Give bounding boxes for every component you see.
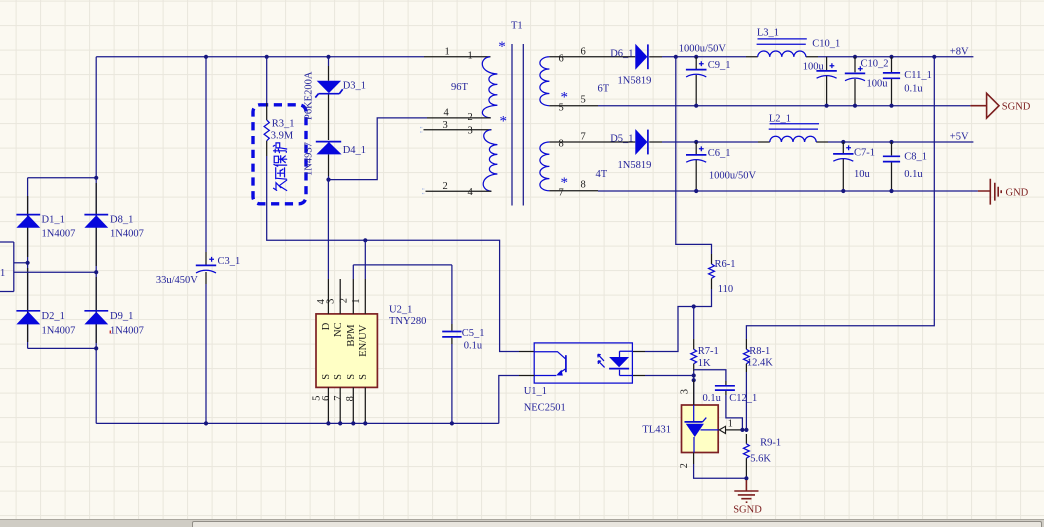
IC TL431 body	[682, 405, 719, 453]
svg-text:6: 6	[559, 54, 564, 65]
wire U2 pin1 up to EN node	[364, 240, 366, 279]
wire EN node to opto collector	[365, 240, 519, 351]
svg-text:96T: 96T	[451, 82, 469, 93]
junction C8 top	[889, 140, 893, 144]
capacitor C7-1	[842, 142, 844, 191]
capacitor C8_1	[891, 142, 893, 191]
resistor R9-1	[745, 434, 747, 444]
svg-text:C12_1: C12_1	[729, 393, 757, 404]
svg-text:BPM: BPM	[346, 324, 357, 347]
wire GND rail	[598, 190, 978, 192]
svg-text:6: 6	[581, 47, 586, 58]
wire R6 bottom to node	[694, 289, 712, 307]
capacitor C10_2	[854, 57, 856, 106]
svg-text:S: S	[346, 374, 357, 380]
junction ref node left	[740, 428, 744, 432]
svg-text:110: 110	[718, 284, 733, 295]
stray red tick	[109, 331, 111, 334]
T1 pin 5 lead	[549, 105, 598, 107]
opto LED	[609, 357, 629, 367]
TL431 internal symbol	[693, 405, 695, 422]
svg-text:33u/450V: 33u/450V	[156, 275, 198, 286]
svg-text:L3_1: L3_1	[757, 28, 779, 39]
wire TL431 anode to SGND	[694, 464, 747, 478]
svg-text:8: 8	[345, 396, 356, 401]
svg-text:1: 1	[0, 268, 5, 279]
wire opto emitter to primary ground	[519, 375, 534, 377]
svg-text:D3_1: D3_1	[343, 81, 366, 92]
ground symbol SGND bottom	[734, 480, 758, 502]
U2 pin 1 (EN/UV)	[364, 279, 366, 314]
svg-text:R8-1: R8-1	[749, 346, 770, 357]
resistor R6-1	[711, 254, 713, 264]
junction C3 bottom	[204, 421, 208, 425]
svg-text:1N4007: 1N4007	[110, 229, 144, 240]
status bar	[0, 519, 1044, 527]
svg-text:1N5819: 1N5819	[618, 75, 652, 86]
capacitor C6_1	[695, 142, 697, 191]
svg-text:100u: 100u	[803, 62, 825, 73]
svg-text:1: 1	[468, 51, 473, 62]
svg-text:C10_2: C10_2	[861, 58, 889, 69]
svg-text:NEC2501: NEC2501	[524, 403, 566, 414]
svg-text:3: 3	[326, 299, 337, 304]
junction SGND node	[744, 476, 748, 480]
svg-text:2: 2	[338, 298, 349, 303]
junction C7 top	[841, 140, 845, 144]
svg-text:1N4007: 1N4007	[110, 326, 144, 337]
svg-text:*: *	[498, 39, 506, 55]
T1 pin 6 lead	[549, 56, 635, 58]
junction EN/UV	[363, 238, 367, 242]
svg-text:6T: 6T	[598, 84, 610, 95]
wire bottom rail	[96, 422, 499, 424]
svg-text:P6KE200A: P6KE200A	[304, 71, 315, 120]
capacitor C3_1	[205, 57, 207, 252]
pin leads diode column right	[95, 183, 97, 343]
svg-text:C6_1: C6_1	[708, 148, 731, 159]
svg-text:R3_1: R3_1	[272, 119, 295, 130]
U2 pin 2 (BPM)	[352, 279, 354, 314]
junction drain node	[326, 178, 330, 182]
wire +5V rail	[662, 141, 973, 143]
no-connect marker pin 4	[422, 189, 425, 194]
svg-text:L2_1: L2_1	[769, 113, 791, 124]
power ground GND	[978, 179, 1001, 205]
svg-text:10u: 10u	[854, 169, 871, 180]
U2 source pins 5-8	[328, 387, 365, 423]
svg-text:1K: 1K	[698, 358, 711, 369]
svg-text:1N5819: 1N5819	[618, 160, 652, 171]
wire top rail	[96, 56, 424, 58]
wire input pin B	[14, 271, 96, 273]
junction at D1-D2 node	[26, 261, 30, 265]
svg-text:S: S	[358, 374, 369, 380]
T1 aux winding	[483, 130, 497, 191]
svg-text:1N4007: 1N4007	[42, 229, 76, 240]
svg-text:*: *	[500, 114, 508, 130]
svg-text:D4_1: D4_1	[343, 145, 366, 156]
junctions U2 source pins on ground rail	[326, 421, 330, 425]
wire node to opto anode	[645, 307, 694, 352]
no-connect marker pin 3	[420, 128, 423, 133]
junction C3 top	[204, 55, 208, 59]
label 欠压保护 (vertical)	[273, 143, 286, 191]
capacitor C11_1	[891, 57, 893, 106]
svg-text:SGND: SGND	[1002, 102, 1031, 113]
junction R6/R7/opto node	[692, 304, 696, 308]
svg-text:C7-1: C7-1	[854, 147, 875, 158]
svg-text:SGND: SGND	[733, 505, 762, 516]
svg-text:8: 8	[559, 139, 564, 150]
svg-text:C11_1: C11_1	[904, 70, 932, 81]
svg-text:3: 3	[679, 389, 690, 394]
junction feedback tap	[674, 55, 678, 59]
svg-text:C10_1: C10_1	[812, 38, 840, 49]
capacitor C5_1	[451, 265, 453, 324]
wire R8 tap down	[746, 57, 934, 339]
svg-text:C8_1: C8_1	[904, 151, 927, 162]
svg-text:D1_1: D1_1	[42, 215, 65, 226]
transformer T1 core	[512, 44, 523, 206]
wire R3 bottom to EN node	[267, 156, 366, 240]
svg-text:6: 6	[321, 396, 332, 401]
svg-text:2: 2	[679, 463, 690, 468]
wire opto cathode to node	[632, 375, 645, 377]
optocoupler U1_1 NEC2501 body	[534, 343, 632, 383]
svg-text:U2_1: U2_1	[389, 305, 412, 316]
wire top-left vertical	[95, 57, 97, 178]
wire input pin A	[14, 262, 28, 264]
svg-text:5.6K: 5.6K	[750, 453, 771, 464]
U2 pin 3 (NC)	[339, 279, 341, 314]
svg-text:D9_1: D9_1	[110, 311, 133, 322]
svg-text:2: 2	[468, 112, 473, 123]
junction C6 bottom	[694, 189, 698, 193]
svg-text:7: 7	[333, 396, 344, 401]
svg-text:0.1u: 0.1u	[904, 84, 923, 95]
svg-text:D8_1: D8_1	[110, 215, 133, 226]
T1 secondary winding 6T	[540, 57, 550, 106]
junction R8 tap	[932, 55, 936, 59]
opto phototransistor	[534, 352, 566, 360]
junction D3/D4 top	[326, 55, 330, 59]
svg-text:D5_1: D5_1	[610, 134, 633, 145]
svg-text:D6_1: D6_1	[610, 48, 633, 59]
wire drain node down to U2 pin D	[327, 180, 329, 279]
junction C11 top	[889, 55, 893, 59]
junction C11 bottom	[889, 104, 893, 108]
resistor R8-1	[745, 339, 747, 349]
junction at D8-D9 node	[94, 270, 98, 274]
undervoltage protection dashed box 欠压保护	[253, 105, 306, 204]
pin leads diode column left	[27, 196, 29, 342]
svg-text:U1_1: U1_1	[524, 386, 547, 397]
svg-text:S: S	[333, 374, 344, 380]
svg-text:R9-1: R9-1	[760, 438, 781, 449]
svg-text:R7-1: R7-1	[698, 346, 719, 357]
svg-text:3: 3	[443, 120, 448, 131]
T1 aux pin 4 lead (unconnected)	[426, 190, 492, 192]
wire left diode column	[27, 178, 29, 349]
T1 pin 7 lead	[549, 190, 598, 192]
inductor L3_1	[746, 56, 818, 58]
svg-text:100u: 100u	[867, 78, 889, 89]
diode D6_1 1N5819	[635, 44, 647, 70]
T1 aux winding pin 3 lead (unconnected)	[424, 129, 492, 131]
junction C10_1 bottom	[825, 104, 829, 108]
diode D8_1	[84, 214, 108, 216]
svg-text:TNY280: TNY280	[389, 316, 426, 327]
svg-text:0.1u: 0.1u	[464, 341, 483, 352]
svg-text:C9_1: C9_1	[708, 60, 731, 71]
capacitor C12_1	[694, 370, 726, 381]
resistor R3_1	[266, 57, 268, 103]
T1 primary winding 96T	[424, 56, 491, 58]
wire +8V rail	[662, 56, 973, 58]
inductor L2_1	[758, 141, 828, 143]
svg-text:1N4007: 1N4007	[42, 326, 76, 337]
svg-text:C5_1: C5_1	[462, 328, 485, 339]
junction C9 bottom	[694, 104, 698, 108]
diode D1_1	[16, 214, 40, 216]
resistor R7-1	[693, 307, 695, 340]
diode D4_1 1N4937	[316, 141, 341, 143]
wire right diode column	[95, 178, 97, 424]
wire bridge bottom	[28, 347, 97, 349]
svg-text:TL431: TL431	[642, 424, 671, 435]
U2 pin 4 (D)	[327, 279, 329, 314]
junction C8 bottom	[889, 189, 893, 193]
connector J1 (partial, left edge)	[0, 242, 14, 292]
wire drain node to primary pin 2	[329, 118, 428, 180]
junction bridge top	[94, 176, 98, 180]
TL431 pin 2	[693, 453, 695, 465]
svg-text:1: 1	[728, 418, 733, 429]
svg-text:3: 3	[468, 126, 473, 137]
svg-text:*: *	[561, 175, 569, 191]
svg-text:*: *	[561, 90, 569, 106]
svg-text:0.1u: 0.1u	[703, 393, 722, 404]
svg-text:EN/UV: EN/UV	[358, 324, 369, 356]
T1 secondary winding 4T	[540, 142, 550, 191]
svg-text:C3_1: C3_1	[218, 256, 241, 267]
wire SGND rail	[598, 105, 970, 107]
junction R3 top	[265, 55, 269, 59]
svg-text:D2_1: D2_1	[42, 311, 65, 322]
junction C7 bottom	[841, 189, 845, 193]
capacitor C9_1	[695, 57, 697, 106]
svg-text:8: 8	[581, 180, 586, 191]
svg-text:NC: NC	[333, 322, 344, 337]
opto light arrows	[598, 354, 604, 361]
svg-text:5: 5	[581, 95, 586, 106]
TL431 ref arrow pin 1	[719, 426, 725, 433]
svg-text:1N4937: 1N4937	[304, 142, 315, 176]
svg-text:1: 1	[445, 47, 450, 58]
junction opto cathode	[692, 373, 696, 377]
wire +8V tap down to R6	[676, 57, 712, 254]
IC U2_1 TNY280 body	[316, 314, 377, 388]
junction ref node right	[744, 428, 748, 432]
diode D5_1 1N5819	[635, 129, 647, 155]
svg-text:3.9M: 3.9M	[271, 131, 294, 142]
svg-text:D: D	[321, 322, 332, 330]
junction C10_2 bottom	[853, 104, 857, 108]
svg-text:GND: GND	[1006, 188, 1029, 199]
svg-text:0.1u: 0.1u	[904, 169, 923, 180]
junction bridge bottom	[94, 346, 98, 350]
svg-text:4T: 4T	[596, 169, 608, 180]
svg-text:+8V: +8V	[950, 46, 969, 57]
T1 pin 8 lead	[549, 141, 635, 143]
svg-text:R6-1: R6-1	[715, 259, 736, 270]
diode D9_1	[84, 310, 108, 312]
junction TL431 ref node	[692, 378, 696, 382]
svg-text:4: 4	[444, 108, 450, 119]
diode D2_1	[16, 310, 40, 312]
power port SGND right	[970, 93, 999, 118]
capacitor C10_1	[826, 57, 828, 106]
svg-text:1000u/50V: 1000u/50V	[679, 44, 727, 55]
svg-text:1: 1	[351, 298, 362, 303]
svg-text:12.4K: 12.4K	[747, 357, 773, 368]
svg-text:T1: T1	[511, 20, 523, 31]
wire U2 pin2 to C5	[353, 265, 452, 279]
svg-text:2: 2	[443, 181, 448, 192]
svg-text:4: 4	[468, 187, 474, 198]
junction C10_2 top	[853, 55, 857, 59]
junction C6 top	[694, 140, 698, 144]
wire bridge top	[28, 177, 97, 179]
svg-text:+5V: +5V	[950, 132, 969, 143]
svg-text:7: 7	[581, 132, 586, 143]
junction C9 top	[694, 55, 698, 59]
svg-text:1000u/50V: 1000u/50V	[709, 171, 757, 182]
junction C5 bottom	[450, 421, 454, 425]
TL431 pin 3	[693, 380, 695, 405]
TVS diode D3_1 P6KE200A	[328, 57, 330, 66]
svg-text:S: S	[321, 374, 332, 380]
